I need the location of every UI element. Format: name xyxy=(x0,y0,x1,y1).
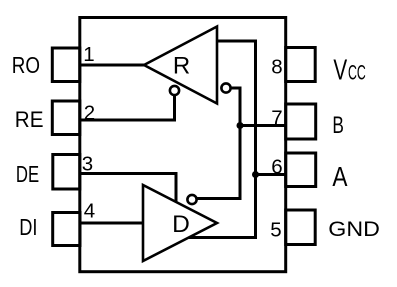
svg-text:2: 2 xyxy=(84,102,95,125)
svg-text:V: V xyxy=(333,55,347,87)
svg-text:6: 6 xyxy=(271,156,282,179)
svg-text:1: 1 xyxy=(83,43,94,66)
svg-text:GND: GND xyxy=(328,218,380,241)
svg-text:R: R xyxy=(173,53,190,80)
svg-text:DI: DI xyxy=(19,214,37,240)
svg-text:A: A xyxy=(332,161,347,192)
svg-text:3: 3 xyxy=(82,153,93,176)
svg-text:8: 8 xyxy=(271,56,282,79)
svg-text:D: D xyxy=(172,211,190,238)
svg-text:RO: RO xyxy=(12,52,40,78)
svg-text:RE: RE xyxy=(15,107,44,132)
svg-text:5: 5 xyxy=(270,219,281,242)
svg-text:7: 7 xyxy=(271,107,282,130)
svg-text:CC: CC xyxy=(348,62,366,85)
svg-text:DE: DE xyxy=(16,161,39,187)
svg-text:B: B xyxy=(332,112,344,139)
svg-text:4: 4 xyxy=(84,200,95,223)
